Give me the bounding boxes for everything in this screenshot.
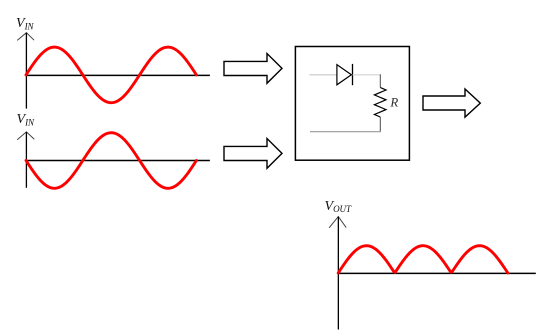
- wire y-axis (output graph): [337, 217, 339, 330]
- node block arrow 2: [224, 139, 282, 169]
- node sine wave inverted V_IN (second graph): [26, 133, 196, 189]
- svg-text:VOUT: VOUT: [325, 199, 353, 214]
- diode D1 triangle: [337, 65, 352, 85]
- wire y-axis (second graph): [25, 132, 27, 188]
- resistor R zigzag: [374, 88, 386, 118]
- node block arrow 1: [224, 54, 282, 84]
- wire y-axis arrowhead (second graph): [17, 132, 34, 140]
- diode D1 cathode bar: [352, 64, 354, 85]
- node sine wave V_IN (top graph): [26, 47, 196, 103]
- wire x-axis (top graph): [26, 74, 210, 76]
- wire resistor bottom down: [379, 117, 381, 132]
- wire down to resistor top: [379, 74, 381, 87]
- svg-text:VIN: VIN: [17, 112, 36, 127]
- svg-text:VIN: VIN: [16, 16, 35, 31]
- wire anode input: [310, 74, 338, 76]
- wire y-axis arrowhead (top graph): [17, 33, 34, 41]
- wire bottom return: [310, 131, 381, 133]
- wire cathode to resistor: [353, 74, 381, 76]
- wire y-axis (top graph): [25, 33, 27, 109]
- svg-text:R: R: [389, 96, 398, 110]
- wire x-axis (second graph): [26, 159, 210, 161]
- node block arrow 3 (output): [423, 89, 480, 117]
- wire y-axis arrowhead (output graph): [329, 217, 346, 228]
- node rectified output wave: [338, 246, 508, 273]
- wire x-axis (output graph): [338, 272, 536, 274]
- node rectifier box: [295, 47, 409, 161]
